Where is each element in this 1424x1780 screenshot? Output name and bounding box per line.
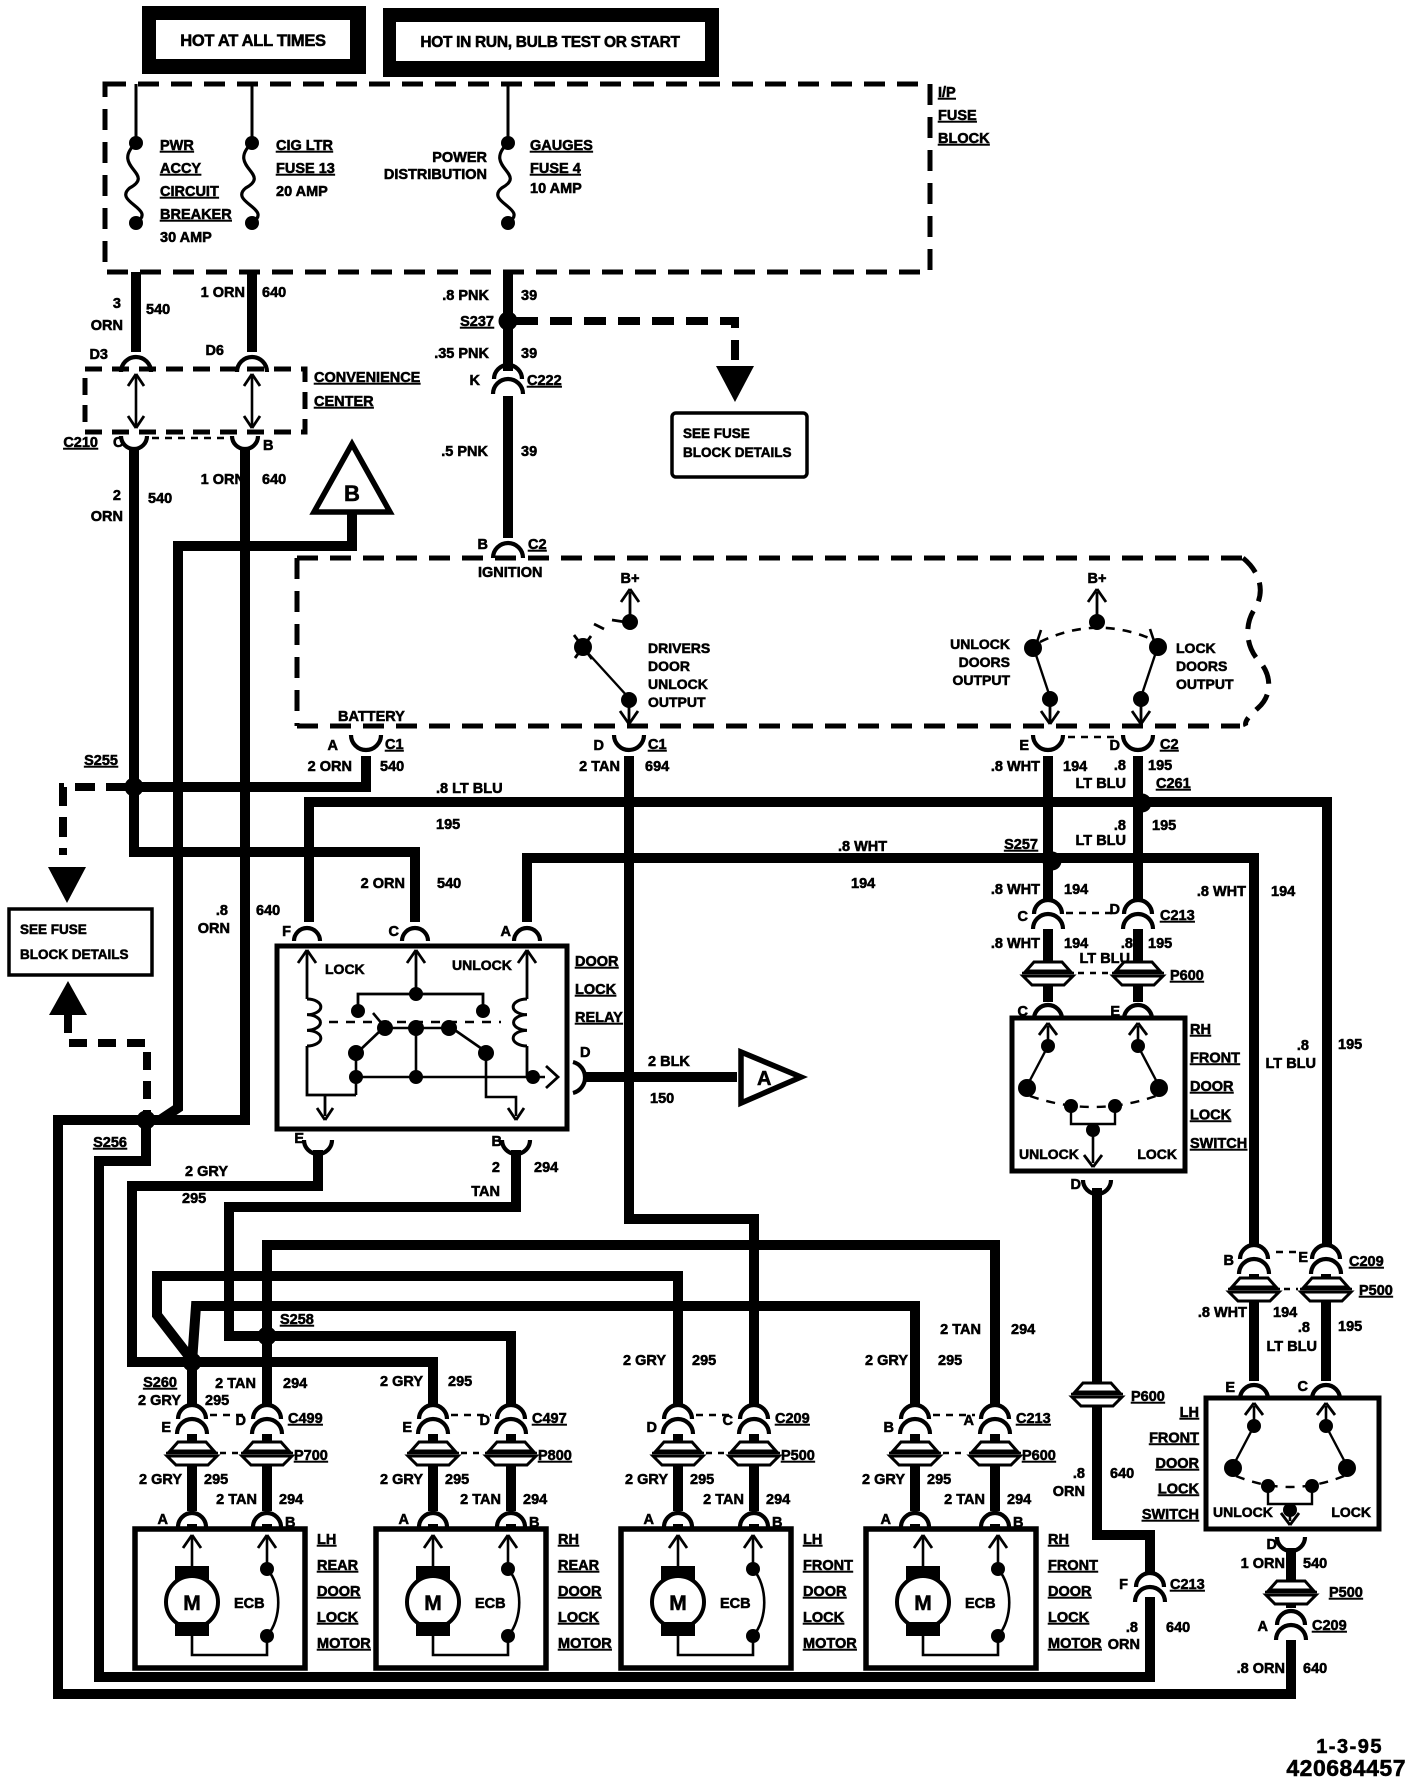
svg-text:BATTERY: BATTERY: [338, 709, 405, 725]
wire S256 to lower bus left: [58, 1120, 1291, 1694]
svg-text:.8: .8: [1121, 936, 1133, 952]
dashed wire to S256: [68, 1015, 147, 1112]
svg-text:195: 195: [1148, 936, 1172, 952]
dashed link P800: [461, 1452, 483, 1455]
wire 2 GRY 295 bus S260 to C209-D: [157, 1276, 678, 1406]
svg-text:B: B: [263, 438, 273, 454]
svg-text:REAR: REAR: [558, 1558, 600, 1574]
svg-text:SEE FUSE: SEE FUSE: [20, 922, 87, 937]
svg-text:UNLOCK: UNLOCK: [950, 636, 1010, 652]
svg-text:D: D: [647, 1420, 657, 1436]
svg-text:C209: C209: [1349, 1254, 1384, 1270]
svg-text:295: 295: [182, 1191, 206, 1207]
svg-text:E: E: [1225, 1380, 1235, 1396]
svg-text:D6: D6: [205, 343, 224, 359]
svg-text:294: 294: [279, 1492, 303, 1508]
wire RH switch D to P600: [1092, 1188, 1102, 1382]
svg-text:2 ORN: 2 ORN: [308, 759, 352, 775]
svg-text:FUSE 4: FUSE 4: [530, 161, 581, 177]
wire .8 ORN 640 to C213-F: [1097, 1406, 1150, 1574]
svg-text:2 GRY: 2 GRY: [138, 1393, 181, 1409]
grommet P500 single: [1269, 1581, 1313, 1590]
svg-text:.8 WHT: .8 WHT: [1197, 884, 1246, 900]
svg-text:194: 194: [1064, 882, 1088, 898]
svg-text:P600: P600: [1022, 1448, 1056, 1464]
svg-text:2 GRY: 2 GRY: [865, 1353, 908, 1369]
svg-text:D: D: [1110, 738, 1120, 754]
svg-text:LT BLU: LT BLU: [1267, 1339, 1317, 1355]
dashed link C499: [210, 1414, 247, 1417]
svg-text:20 AMP: 20 AMP: [276, 184, 328, 200]
wire 2 GRY 295: [673, 1466, 683, 1511]
svg-text:LT BLU: LT BLU: [1076, 833, 1126, 849]
svg-text:C209: C209: [775, 1411, 810, 1427]
svg-text:640: 640: [1303, 1661, 1327, 1677]
svg-text:C213: C213: [1170, 1577, 1205, 1593]
svg-text:640: 640: [256, 903, 280, 919]
svg-text:.8: .8: [1297, 1038, 1309, 1054]
switch dashed wiper arc: [1030, 1096, 1156, 1107]
svg-text:540: 540: [380, 759, 404, 775]
svg-text:C1: C1: [385, 737, 404, 753]
svg-text:1 ORN: 1 ORN: [201, 285, 245, 301]
relay internal pin F arrow and lock coil: [306, 952, 309, 999]
wire .8 LT BLU 195 C2-D to C213-D: [1133, 756, 1143, 901]
relay path to pin E: [355, 1053, 358, 1095]
svg-text:DOOR: DOOR: [317, 1584, 361, 1600]
svg-text:UNLOCK: UNLOCK: [1019, 1146, 1079, 1162]
svg-text:A: A: [881, 1512, 892, 1528]
I/P fuse block dashed boundary: [105, 84, 930, 272]
arrow down to see fuse block details box: [48, 867, 86, 903]
grommet P600 right: [973, 1442, 1017, 1451]
wire 2 GRY 295: [428, 1466, 438, 1511]
svg-text:E: E: [1019, 738, 1029, 754]
wire fuse feed 1: [135, 84, 138, 143]
svg-text:2 GRY: 2 GRY: [139, 1472, 182, 1488]
switch left entry arrow: [1047, 1026, 1050, 1046]
wire 2 ORN 540 from C210-C to S255 and relay pin C: [134, 448, 415, 922]
ECB circuit breaker: [260, 1562, 274, 1576]
svg-text:P600: P600: [1131, 1389, 1165, 1405]
motor bottom link: [433, 1628, 508, 1655]
svg-text:294: 294: [766, 1492, 790, 1508]
svg-text:M: M: [424, 1592, 442, 1615]
svg-text:K: K: [470, 373, 481, 389]
grommet P600 left: [1026, 962, 1070, 971]
wire .8 PNK 39 from fuse 4: [503, 272, 513, 371]
splice C261: [1133, 794, 1152, 813]
svg-text:BLOCK: BLOCK: [938, 131, 990, 147]
svg-text:CIRCUIT: CIRCUIT: [160, 184, 219, 200]
svg-text:DRIVERS: DRIVERS: [648, 640, 710, 656]
svg-text:C261: C261: [1156, 776, 1191, 792]
grommet P800 left: [411, 1442, 455, 1451]
svg-text:1 ORN: 1 ORN: [201, 472, 245, 488]
dashed link C210: [152, 437, 228, 440]
svg-text:UNLOCK: UNLOCK: [648, 676, 708, 692]
svg-text:TAN: TAN: [471, 1184, 500, 1200]
svg-text:SWITCH: SWITCH: [1190, 1136, 1247, 1152]
svg-text:A: A: [501, 924, 512, 940]
driver switch blade: [587, 652, 628, 697]
wire into motor right: [990, 1524, 1000, 1529]
fuse CIG LTR FUSE 13 20 AMP: [245, 136, 259, 150]
svg-text:2: 2: [492, 1160, 500, 1176]
svg-text:640: 640: [262, 472, 286, 488]
ECB circuit breaker: [746, 1562, 760, 1576]
svg-text:D: D: [1071, 1177, 1081, 1193]
driver switch contact: [594, 624, 604, 629]
svg-text:LOCK: LOCK: [317, 1610, 359, 1626]
svg-text:150: 150: [650, 1091, 674, 1107]
svg-text:2 GRY: 2 GRY: [380, 1374, 423, 1390]
svg-text:MOTOR: MOTOR: [1048, 1636, 1102, 1652]
circuit breaker PWR ACCY 30 AMP: [129, 136, 143, 150]
wire stub right P700: [262, 1434, 272, 1441]
convenience center dashed box: [85, 369, 305, 432]
grommet P500 right: [1304, 1278, 1348, 1287]
wire .8 WHT 194 trunk from relay pin A: [527, 858, 1254, 1246]
svg-text:C210: C210: [63, 435, 98, 451]
svg-text:.35 PNK: .35 PNK: [434, 346, 489, 362]
svg-text:.8 WHT: .8 WHT: [991, 759, 1040, 775]
svg-text:.8: .8: [216, 903, 228, 919]
connector C210 pin B: [232, 436, 258, 449]
svg-text:ORN: ORN: [1053, 1484, 1085, 1500]
dashed link C213: [933, 1414, 975, 1417]
svg-text:B: B: [1224, 1253, 1234, 1269]
wire 2 GRY 295: [187, 1466, 197, 1511]
svg-text:MOTOR: MOTOR: [317, 1636, 371, 1652]
svg-text:.8 WHT: .8 WHT: [1198, 1305, 1247, 1321]
svg-text:195: 195: [1148, 758, 1172, 774]
svg-text:295: 295: [205, 1393, 229, 1409]
svg-text:295: 295: [690, 1472, 714, 1488]
switch dashed wiper arc: [1236, 1476, 1344, 1487]
svg-text:P800: P800: [538, 1448, 572, 1464]
svg-text:640: 640: [1166, 1620, 1190, 1636]
svg-text:LOCK: LOCK: [1137, 1146, 1177, 1162]
svg-text:C213: C213: [1160, 908, 1195, 924]
svg-text:UNLOCK: UNLOCK: [452, 957, 512, 973]
wire into motor right: [749, 1524, 759, 1529]
switch wiper left post: [1261, 1479, 1275, 1493]
svg-text:2 TAN: 2 TAN: [579, 759, 620, 775]
svg-text:LOCK: LOCK: [325, 961, 365, 977]
wire 3 ORN 540 to D3: [131, 272, 141, 352]
motor pin B arrow: [752, 1537, 755, 1566]
switch lock contact: [1138, 1046, 1158, 1084]
svg-text:LT BLU: LT BLU: [1076, 776, 1126, 792]
svg-text:.8: .8: [1126, 1620, 1138, 1636]
svg-text:S257: S257: [1004, 837, 1038, 853]
svg-text:MOTOR: MOTOR: [803, 1636, 857, 1652]
svg-text:POWER: POWER: [432, 150, 487, 166]
power feed box HOT AT ALL TIMES: [142, 6, 366, 74]
wire stub left P600: [910, 1434, 920, 1441]
svg-text:RH: RH: [1190, 1022, 1211, 1038]
dashed link P500: [706, 1452, 726, 1455]
motor pin B arrow: [997, 1537, 1000, 1566]
svg-text:10 AMP: 10 AMP: [530, 181, 582, 197]
svg-text:LOCK: LOCK: [1190, 1108, 1232, 1124]
svg-text:.8: .8: [1114, 758, 1126, 774]
svg-text:1 ORN: 1 ORN: [1241, 1556, 1285, 1572]
svg-text:DOOR: DOOR: [1156, 1456, 1200, 1472]
svg-text:2 GRY: 2 GRY: [380, 1472, 423, 1488]
wire .8 LT BLU 195 to LH switch C: [1321, 1302, 1331, 1381]
svg-text:540: 540: [1303, 1556, 1327, 1572]
svg-text:2 GRY: 2 GRY: [623, 1353, 666, 1369]
wire 2 TAN 694 from C1-D to LH front door C209-C: [629, 756, 754, 1406]
svg-text:DOOR: DOOR: [575, 954, 619, 970]
svg-text:OUTPUT: OUTPUT: [1176, 676, 1234, 692]
svg-text:295: 295: [448, 1374, 472, 1390]
svg-text:294: 294: [1007, 1492, 1031, 1508]
wire 2 TAN 294 bus S258 to C213-A: [267, 1245, 995, 1406]
door lock relay box: [277, 946, 567, 1129]
svg-text:P500: P500: [1359, 1283, 1393, 1299]
body control module wavy right edge: [1243, 558, 1269, 726]
svg-text:39: 39: [521, 288, 537, 304]
wire .8 WHT 194 to LH switch E: [1249, 1302, 1259, 1381]
svg-text:2 GRY: 2 GRY: [625, 1472, 668, 1488]
svg-text:S260: S260: [143, 1375, 177, 1391]
svg-text:LOCK: LOCK: [1331, 1504, 1371, 1520]
svg-text:LOCK: LOCK: [575, 982, 617, 998]
dashed wire S255 to see fuse block details: [63, 787, 126, 855]
wire 2 TAN 294: [262, 1466, 272, 1511]
motor pin A arrow: [922, 1537, 925, 1566]
svg-text:540: 540: [148, 491, 172, 507]
svg-text:B+: B+: [621, 571, 640, 587]
svg-text:39: 39: [521, 346, 537, 362]
svg-text:HOT IN RUN, BULB TEST OR START: HOT IN RUN, BULB TEST OR START: [420, 34, 680, 51]
see fuse block details box left: [9, 909, 152, 975]
wire 2 BLK 150 to triangle A: [585, 1072, 737, 1082]
svg-text:PWR: PWR: [160, 138, 194, 154]
motor pin B arrow: [507, 1537, 510, 1566]
svg-text:D3: D3: [89, 347, 108, 363]
svg-text:DOOR: DOOR: [558, 1584, 602, 1600]
wire 2 GRY 295 S260 to C497-E: [192, 1362, 433, 1406]
wire 2 TAN 294: [506, 1466, 516, 1511]
motor M: [175, 1566, 209, 1580]
svg-text:LT BLU: LT BLU: [1266, 1056, 1316, 1072]
svg-text:M: M: [669, 1592, 687, 1615]
svg-text:694: 694: [645, 759, 669, 775]
svg-text:195: 195: [1152, 818, 1176, 834]
relay common bus to pin D: [415, 1028, 418, 1077]
arrow to see fuse block details: [716, 366, 754, 402]
dashed link C209: [696, 1414, 734, 1417]
svg-text:C: C: [1018, 909, 1029, 925]
door lock switch box RH: [1012, 1018, 1185, 1171]
svg-text:ACCY: ACCY: [160, 161, 201, 177]
wire 2 GRY 295: [910, 1466, 920, 1511]
wire 2 GRY 295 bus S260 to C213-B: [192, 1306, 915, 1406]
svg-text:540: 540: [146, 302, 170, 318]
triangle reference A: [741, 1052, 801, 1103]
svg-text:2 GRY: 2 GRY: [862, 1472, 905, 1488]
grommet P600 single: [1075, 1383, 1119, 1392]
dashed link P600: [943, 1452, 967, 1455]
svg-text:2 GRY: 2 GRY: [185, 1164, 228, 1180]
svg-text:194: 194: [1271, 884, 1295, 900]
svg-text:ECB: ECB: [234, 1596, 265, 1612]
switch right entry arrow: [1137, 1026, 1140, 1046]
svg-text:OUTPUT: OUTPUT: [952, 672, 1010, 688]
svg-text:B: B: [884, 1420, 894, 1436]
wire 1 ORN 640 to D6: [247, 272, 257, 352]
svg-text:C1: C1: [648, 737, 667, 753]
wire 1 ORN 540 to P500: [1286, 1548, 1296, 1581]
svg-text:B: B: [478, 537, 488, 553]
svg-text:2 TAN: 2 TAN: [215, 1376, 256, 1392]
svg-text:ORN: ORN: [1108, 1637, 1140, 1653]
svg-text:S237: S237: [460, 314, 494, 330]
switch common arrow: [1283, 1503, 1297, 1517]
svg-text:LH: LH: [317, 1532, 336, 1548]
wire .8 LT BLU 195 trunk to relay pin F: [309, 802, 1327, 1246]
svg-text:E: E: [161, 1420, 171, 1436]
svg-text:194: 194: [1063, 759, 1087, 775]
svg-text:RH: RH: [1048, 1532, 1069, 1548]
ECB circuit breaker: [991, 1562, 1005, 1576]
grommet P800 right: [489, 1442, 533, 1451]
motor M: [661, 1566, 695, 1580]
svg-text:.8 PNK: .8 PNK: [442, 288, 489, 304]
wire 1 ORN 640 from C210-B: [146, 448, 245, 1120]
svg-text:C2: C2: [528, 537, 547, 553]
svg-text:.8 ORN: .8 ORN: [1237, 1661, 1285, 1677]
svg-text:.8 LT BLU: .8 LT BLU: [436, 781, 503, 797]
wire .8 WHT 194 C2-E to C213-C: [1043, 756, 1053, 901]
relay internal pin A arrow and unlock coil: [526, 952, 529, 999]
svg-text:.8: .8: [1114, 818, 1126, 834]
svg-text:2 TAN: 2 TAN: [460, 1492, 501, 1508]
relay internal pin C feed: [415, 952, 418, 994]
svg-text:CENTER: CENTER: [314, 394, 374, 410]
dashed link C213: [1066, 912, 1118, 915]
svg-text:194: 194: [1273, 1305, 1297, 1321]
svg-text:FRONT: FRONT: [1190, 1051, 1240, 1067]
wire C209-B stub: [1249, 1274, 1259, 1277]
svg-text:LOCK: LOCK: [558, 1610, 600, 1626]
body control module dashed box top edge: [297, 556, 1243, 561]
ECB circuit breaker: [501, 1562, 515, 1576]
wire into motor left: [910, 1524, 920, 1529]
svg-text:DISTRIBUTION: DISTRIBUTION: [384, 167, 487, 183]
wire S255 to BCM battery pin A: [134, 756, 366, 787]
body control module dashed box bottom edge: [297, 724, 1240, 729]
svg-text:295: 295: [445, 1472, 469, 1488]
dashed link P600: [1078, 972, 1108, 975]
switch right entry arrow: [1325, 1406, 1328, 1426]
svg-text:A: A: [644, 1512, 655, 1528]
svg-text:2 TAN: 2 TAN: [216, 1492, 257, 1508]
convenience center fuse element right: [251, 375, 254, 427]
motor pin A arrow: [432, 1537, 435, 1566]
svg-text:BLOCK DETAILS: BLOCK DETAILS: [683, 445, 792, 460]
door lock motor box LH FRONT: [621, 1529, 791, 1668]
svg-text:C: C: [389, 924, 400, 940]
svg-text:D: D: [580, 1045, 590, 1061]
unlock contact: [1024, 639, 1042, 657]
svg-text:S256: S256: [93, 1135, 127, 1151]
svg-text:C222: C222: [527, 373, 562, 389]
svg-text:C213: C213: [1016, 1411, 1051, 1427]
dashed link P700: [220, 1452, 239, 1455]
arrow up from dashed to details box: [49, 981, 87, 1015]
wire from triangle B to S256: [160, 512, 352, 1120]
power feed box HOT IN RUN, BULB TEST OR START: [383, 8, 719, 77]
svg-text:2 ORN: 2 ORN: [361, 876, 405, 892]
body control module dashed box left edge: [295, 558, 300, 726]
svg-text:LH: LH: [1180, 1405, 1199, 1421]
svg-text:294: 294: [283, 1376, 307, 1392]
svg-text:420684457: 420684457: [1286, 1755, 1406, 1780]
wire C213-C to P600: [1043, 929, 1053, 961]
triangle reference B: [314, 444, 390, 512]
svg-text:F: F: [282, 924, 291, 940]
motor M: [416, 1566, 450, 1580]
svg-text:.8 WHT: .8 WHT: [991, 882, 1040, 898]
wire S258 down to C499-D: [262, 1336, 272, 1406]
grommet P700 left: [170, 1442, 214, 1451]
svg-text:FRONT: FRONT: [803, 1558, 853, 1574]
svg-text:I/P: I/P: [938, 85, 956, 101]
svg-text:195: 195: [1338, 1319, 1362, 1335]
svg-text:SEE FUSE: SEE FUSE: [683, 426, 750, 441]
switch common arrow: [1086, 1123, 1100, 1137]
svg-text:IGNITION: IGNITION: [478, 565, 542, 581]
wire stub left P700: [187, 1434, 197, 1441]
svg-text:M: M: [183, 1592, 201, 1615]
switch left entry arrow: [1253, 1406, 1256, 1426]
svg-text:2 BLK: 2 BLK: [648, 1054, 690, 1070]
door lock motor box RH REAR: [376, 1529, 546, 1668]
svg-text:A: A: [757, 1068, 771, 1090]
motor pin B arrow: [266, 1537, 269, 1566]
wire stub right P800: [506, 1434, 516, 1441]
svg-text:2 TAN: 2 TAN: [944, 1492, 985, 1508]
svg-text:E: E: [1298, 1250, 1308, 1266]
svg-text:294: 294: [534, 1160, 558, 1176]
svg-text:194: 194: [1064, 936, 1088, 952]
svg-text:.8: .8: [1298, 1320, 1310, 1336]
svg-text:S255: S255: [84, 753, 118, 769]
svg-text:DOORS: DOORS: [1176, 658, 1227, 674]
svg-text:295: 295: [927, 1472, 951, 1488]
grommet P500 left: [656, 1442, 700, 1451]
svg-text:C2: C2: [1160, 737, 1179, 753]
wire fuse feed 2: [251, 84, 254, 143]
svg-text:P600: P600: [1170, 968, 1204, 984]
svg-text:3: 3: [113, 296, 121, 312]
svg-text:DOORS: DOORS: [959, 654, 1010, 670]
svg-text:FUSE: FUSE: [938, 108, 977, 124]
switch wiper left post: [1064, 1099, 1078, 1113]
lock switch blade and arrow: [1142, 655, 1155, 694]
switch wiper right post: [1108, 1099, 1122, 1113]
wire fuse feed 3: [507, 84, 510, 143]
grommet P500 right: [732, 1442, 776, 1451]
wire C213-D to P600: [1133, 929, 1143, 961]
svg-text:39: 39: [521, 444, 537, 460]
svg-text:ECB: ECB: [475, 1596, 506, 1612]
